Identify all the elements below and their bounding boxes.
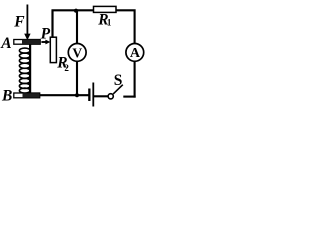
switch S hinge <box>108 94 113 99</box>
svg-text:B: B <box>1 87 12 104</box>
svg-text:2: 2 <box>64 63 69 73</box>
node junction top (V branch) <box>74 9 78 13</box>
voltmeter V <box>68 44 86 62</box>
svg-text:1: 1 <box>107 17 112 27</box>
wire V branch upper <box>76 11 78 44</box>
resistor R2 (rheostat body) <box>50 37 56 62</box>
ammeter A <box>126 44 144 62</box>
base plate B <box>14 93 40 98</box>
force arrow F <box>26 5 28 35</box>
wire V branch lower <box>76 61 78 95</box>
wire switch contact to corner <box>123 96 135 98</box>
node junction bottom (V branch) <box>75 93 79 97</box>
svg-text:F: F <box>13 13 25 30</box>
slider arrow P <box>41 41 46 43</box>
plate A (slider crossbar) <box>14 40 40 45</box>
resistor R1 <box>94 6 117 12</box>
wire R2 branch upper <box>51 10 53 37</box>
spring coil <box>19 48 30 93</box>
guide rod <box>29 44 31 94</box>
wire top horizontal <box>53 10 135 44</box>
svg-text:V: V <box>72 45 82 60</box>
svg-text:A: A <box>0 35 11 52</box>
svg-text:A: A <box>130 46 141 61</box>
battery short thick plate (negative) <box>88 89 90 102</box>
battery long thin plate (positive) <box>92 83 94 107</box>
wire battery to switch <box>94 95 109 97</box>
switch S lever <box>113 85 123 94</box>
svg-text:S: S <box>114 72 123 89</box>
wire right branch lower <box>134 61 136 98</box>
wire bottom left <box>39 94 89 96</box>
